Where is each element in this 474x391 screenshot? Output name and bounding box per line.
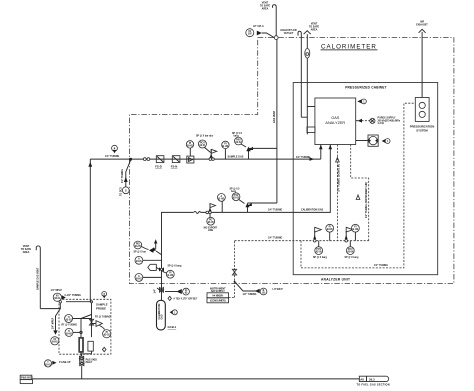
sample probe box	[59, 299, 111, 354]
instrument PI gcb	[162, 270, 174, 278]
relief valve RV3	[149, 239, 162, 255]
probe filter branch	[79, 315, 94, 357]
svg-text:OUTLET: OUTLET	[284, 32, 294, 35]
svg-text:PROBE: PROBE	[96, 307, 106, 311]
svg-text:FS-D: FS-D	[155, 165, 162, 169]
svg-text:93-01: 93-01	[199, 145, 206, 147]
svg-text:ANALYZER UNIT: ANALYZER UNIT	[321, 278, 350, 282]
svg-text:1/4" TUBING: 1/4" TUBING	[296, 156, 310, 159]
air exhaust line	[416, 20, 428, 97]
filter FS-D	[155, 156, 164, 169]
svg-text:INLET: INLET	[86, 362, 93, 364]
svg-text:93-01: 93-01	[45, 364, 52, 366]
svg-text:1/4" TUBING: 1/4" TUBING	[268, 237, 282, 240]
svg-text:RT @ TUBING: RT @ TUBING	[62, 324, 78, 326]
diamond probe	[102, 347, 106, 351]
svg-text:SP @ X barg: SP @ X barg	[168, 266, 182, 268]
svg-text:P&B BOX: P&B BOX	[21, 376, 33, 380]
node junction vent	[274, 36, 278, 40]
svg-text:B-HS: B-HS	[167, 275, 173, 277]
instrument LIT-197-A	[246, 25, 274, 37]
svg-text:200 l/h(ST)400L/MPa: 200 l/h(ST)400L/MPa	[378, 119, 401, 122]
relief valve RV1	[246, 147, 277, 160]
pressurized cabinet	[293, 83, 438, 275]
probe inlet line	[65, 294, 93, 337]
svg-text:GAS: GAS	[331, 116, 339, 120]
svg-text:0-1/4" TUBING: 0-1/4" TUBING	[65, 294, 82, 297]
svg-text:SYSTEM: SYSTEM	[416, 128, 428, 132]
svg-text:AREA: AREA	[262, 8, 269, 11]
svg-text:B-HS: B-HS	[136, 261, 142, 263]
svg-text:AREA: AREA	[311, 28, 318, 31]
svg-text:B-HS: B-HS	[327, 229, 333, 231]
XV cluster left of probe	[40, 289, 66, 309]
valve couplings	[143, 158, 149, 161]
instrument drop to DCS	[121, 160, 131, 196]
svg-text:1/2" TUBING: 1/2" TUBING	[374, 265, 388, 267]
instrument PSV 93-02	[232, 133, 246, 147]
probe bowtie valve	[89, 319, 93, 325]
svg-text:1/4" TUBING: 1/4" TUBING	[105, 155, 119, 158]
cabinet PCV cluster 1	[313, 224, 334, 259]
svg-text:PRESSURIZED CABINET: PRESSURIZED CABINET	[345, 85, 387, 89]
svg-text:ANALYZER: ANALYZER	[325, 121, 345, 125]
vent V3 (to safe area) with seal	[304, 22, 320, 134]
diamond marker	[168, 296, 198, 300]
probe pin marker	[102, 292, 107, 299]
svg-text:1/4" MPLP: 1/4" MPLP	[51, 289, 63, 292]
svg-text:SAMPLE GAS: SAMPLE GAS	[228, 156, 244, 159]
svg-text:B-HS: B-HS	[353, 229, 359, 231]
purge supply	[356, 118, 401, 125]
blowdown branch	[51, 309, 61, 345]
vent riser	[273, 40, 277, 204]
P&B BOX label	[20, 375, 33, 383]
svg-text:26.3: 26.3	[369, 378, 375, 382]
svg-text:93-02: 93-02	[104, 335, 111, 337]
svg-text:1/4" TUBING: 1/4" TUBING	[268, 208, 282, 211]
svg-text:SP @ X barg: SP @ X barg	[345, 257, 359, 259]
flow arrow on sample line	[310, 157, 315, 161]
regulator flag R1	[209, 149, 217, 160]
svg-text:RT @ TUBING: RT @ TUBING	[95, 316, 111, 318]
svg-text:CALIBRATION GAS: CALIBRATION GAS	[301, 209, 324, 212]
check valve box	[187, 156, 194, 163]
analyzer signal line 1	[336, 145, 341, 241]
svg-text:PURGE SUPPLY: PURGE SUPPLY	[378, 118, 396, 120]
svg-text:93-05: 93-05	[208, 222, 215, 224]
instrument air supply box	[207, 287, 229, 303]
tag 1 at bottle	[170, 310, 178, 315]
bottom drain header	[33, 378, 360, 380]
svg-text:CALIBRATION: CALIBRATION	[158, 303, 161, 319]
calorimeter boundary	[129, 38, 454, 284]
svg-text:1/4" TUBING: 1/4" TUBING	[121, 169, 124, 183]
svg-text:EXHAUST: EXHAUST	[416, 23, 428, 26]
svg-text:GCB-1: GCB-1	[168, 325, 177, 329]
svg-text:B-HS: B-HS	[219, 198, 225, 200]
tag at rotameter	[382, 139, 390, 144]
svg-text:LIT 197-A: LIT 197-A	[253, 25, 264, 28]
svg-text:SP @ X barg: SP @ X barg	[313, 257, 327, 259]
filter FS-N	[171, 156, 180, 169]
instrument PI 2	[222, 141, 229, 159]
calibration gas line	[162, 145, 333, 214]
instrument A gcb2	[135, 274, 162, 282]
instrument TI probe2	[65, 328, 82, 336]
svg-text:SP @ X bar: SP @ X bar	[134, 251, 147, 253]
tag T bottom left	[44, 360, 71, 367]
vent hook V2 (exhaust air outlet)	[280, 29, 307, 117]
svg-text:B-HS: B-HS	[223, 146, 229, 148]
GCB column	[161, 212, 163, 300]
instrument air riser	[229, 241, 237, 298]
svg-text:FS-N: FS-N	[171, 165, 178, 169]
analyzer signal line 2	[351, 145, 369, 241]
svg-text:93-03: 93-03	[66, 319, 73, 321]
svg-text:1/4" MPLP: 1/4" MPLP	[52, 317, 55, 329]
wire main sample line	[90, 158, 320, 160]
svg-text:GAS VENT: GAS VENT	[273, 110, 276, 123]
svg-text:B-HS: B-HS	[52, 342, 58, 344]
analyzer tag top right	[357, 99, 366, 104]
sample feed riser	[88, 159, 92, 302]
svg-text:CALORIMETER: CALORIMETER	[321, 44, 377, 51]
svg-text:TO DCS: TO DCS	[121, 187, 123, 196]
svg-text:P LINE-UP: P LINE-UP	[59, 362, 71, 364]
sample line into analyzer	[319, 145, 323, 160]
air branch to pressurization	[301, 103, 415, 268]
node sample/boundary junction	[129, 158, 132, 161]
purge rotameter	[356, 135, 379, 146]
label CALORIMETER	[321, 44, 378, 51]
instrument TI probe1	[62, 315, 92, 327]
svg-text:1/2" TUBING (INSTRUMENT AIR): 1/2" TUBING (INSTRUMENT AIR)	[365, 182, 368, 218]
probe regulator flag	[92, 316, 111, 329]
svg-text:B-HS: B-HS	[187, 145, 193, 147]
svg-text:AV: AV	[360, 378, 364, 382]
svg-text:93-05: 93-05	[316, 252, 323, 254]
svg-text:TO FUEL GAS SECTION: TO FUEL GAS SECTION	[357, 383, 390, 386]
svg-text:AREA: AREA	[23, 251, 30, 254]
gas analyzer U1	[315, 98, 356, 145]
svg-text:## NM3/H: ## NM3/H	[212, 295, 223, 298]
off page connector AV 26.3	[357, 376, 390, 386]
sample point pin	[105, 145, 119, 158]
svg-text:93-01: 93-01	[54, 298, 61, 300]
svg-text:1/4" TUBING (SIGNAL M): 1/4" TUBING (SIGNAL M)	[338, 164, 341, 192]
svg-text:LINE: LINE	[208, 230, 214, 232]
regulator flag R3	[148, 264, 182, 271]
svg-text:1/4": 1/4"	[154, 289, 157, 293]
instrument PS below	[204, 214, 218, 232]
tag B right	[234, 281, 284, 296]
svg-text:93-02: 93-02	[235, 142, 242, 144]
cabinet PCV cluster 2	[345, 224, 360, 259]
instrument PCV 93-01	[196, 136, 214, 153]
svg-text:4.2 l/h: 4.2 l/h	[378, 122, 385, 125]
vent hook V1 (to safe area)	[260, 2, 276, 38]
svg-text:SAMPLE GAS VENT: SAMPLE GAS VENT	[36, 267, 39, 290]
regulator flag R2	[209, 204, 216, 212]
probe drain valves	[80, 354, 98, 379]
instrument A gcb1	[135, 256, 162, 264]
svg-text:# TEX 4.170" OFFSET: # TEX 4.170" OFFSET	[174, 298, 198, 301]
svg-text:SP @ X bar abs: SP @ X bar abs	[196, 136, 214, 138]
svg-text:93-05: 93-05	[135, 246, 142, 248]
svg-text:LIT WP-P: LIT WP-P	[273, 289, 284, 291]
instrument A	[218, 194, 226, 213]
pressurization system	[410, 98, 435, 133]
svg-text:B-HS: B-HS	[66, 333, 72, 335]
svg-text:(CONSUMER): (CONSUMER)	[210, 300, 226, 303]
relief valve RV2	[245, 203, 277, 213]
instrument PIS	[134, 241, 149, 253]
svg-text:93-03: 93-03	[233, 198, 240, 200]
instrument air header	[235, 237, 369, 242]
left vent riser	[21, 245, 40, 309]
instrument PSV 93-03	[230, 189, 245, 204]
svg-text:93-06: 93-06	[347, 252, 354, 254]
svg-text:B-HS: B-HS	[136, 278, 142, 280]
cylinder GCB-1	[157, 300, 177, 330]
tag B left	[165, 288, 189, 295]
valve gcb bottle	[154, 288, 164, 294]
svg-text:GAS: GAS	[161, 314, 164, 319]
instrument PI (on check box)	[186, 141, 193, 156]
svg-text:1/2" TUBING: 1/2" TUBING	[243, 294, 257, 296]
instrument PI probe	[103, 330, 111, 338]
